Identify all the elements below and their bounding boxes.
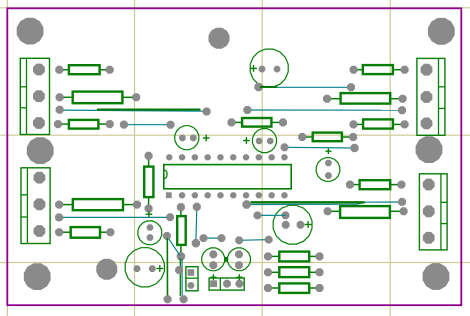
wire teal net5 — [285, 146, 355, 149]
diode D2 — [209, 274, 244, 290]
wire teal net10 vertical — [181, 259, 183, 297]
mounting hole H2 — [209, 28, 230, 49]
node net1 pad right — [203, 108, 211, 116]
node net15 pad right — [398, 198, 406, 206]
trace green net3 — [260, 86, 277, 88]
resistor R18 — [264, 283, 324, 293]
node pad left of D1 — [175, 266, 183, 274]
grid line horizontal y=135 — [0, 134, 470, 136]
node net13 pad — [254, 212, 262, 220]
node net4 pad left — [243, 106, 251, 114]
resistor R10 — [144, 152, 153, 213]
capacitor C1 — [250, 49, 288, 87]
mounting hole H6 — [24, 263, 51, 290]
capacitor C7 — [273, 205, 312, 244]
IC U1 bottom pad row (pin 1 square) — [166, 192, 288, 198]
resistor R5 — [298, 133, 357, 142]
resistor R13 — [323, 93, 407, 104]
node net10 pad bottom — [180, 295, 188, 303]
resistor R2 — [56, 92, 141, 104]
resistor R3 — [54, 120, 114, 129]
node net11 pad left — [200, 234, 208, 242]
terminal block J3 — [21, 168, 50, 244]
trace green net1 — [97, 108, 201, 110]
resistor R12 — [350, 65, 409, 74]
node net5 pad left — [281, 143, 289, 151]
node net12 pad right — [265, 236, 273, 244]
wire teal net12 — [239, 239, 269, 242]
node net1 pad left — [56, 106, 64, 114]
resistor R15 — [324, 206, 408, 218]
IC U1 top pad row — [166, 154, 287, 160]
wire teal net1 — [60, 110, 205, 111]
wire teal net2 — [124, 124, 171, 126]
wire teal net11 — [204, 237, 222, 239]
terminal block J2 — [417, 58, 445, 135]
node net6 pad right — [166, 213, 174, 221]
resistor R11 — [177, 203, 186, 260]
grid line vertical x=7 — [6, 0, 8, 316]
resistor R9 — [55, 227, 114, 238]
node net3 pad — [347, 83, 355, 91]
wire teal net6 — [60, 216, 171, 218]
node net4 pad right — [398, 106, 406, 114]
mounting hole H1 — [17, 18, 44, 45]
resistor R17 — [264, 267, 324, 277]
diode D1 — [186, 267, 198, 291]
capacitor C3 — [243, 129, 277, 153]
capacitor C4 — [316, 148, 340, 181]
resistor R16 — [264, 252, 324, 262]
resistor R4 — [228, 118, 288, 127]
capacitor C5 — [138, 211, 162, 245]
node net12 pad left — [235, 236, 243, 244]
node net8 pad — [163, 232, 171, 240]
terminal block J4 — [419, 174, 447, 250]
node net15 pad left — [242, 200, 250, 208]
resistor R6 — [350, 119, 409, 128]
node net2 pad left — [120, 121, 128, 129]
mounting hole H7 — [96, 259, 117, 280]
mounting hole H5 — [416, 136, 443, 163]
transistor Q2 — [225, 248, 251, 271]
mounting hole H3 — [428, 18, 455, 45]
IC U1 body — [164, 165, 292, 189]
mounting hole H8 — [423, 263, 450, 290]
wire teal net13 — [257, 214, 285, 216]
capacitor C2 — [175, 126, 210, 150]
node net7 pad top — [193, 203, 201, 211]
trace green net9 vertical — [166, 238, 168, 296]
wire teal net3 — [261, 86, 351, 88]
pad below C1 — [254, 83, 262, 91]
node net11 pad right — [218, 234, 226, 242]
node net7 pad bottom — [192, 239, 200, 247]
trace green net15 — [251, 201, 365, 203]
wire teal net7 vertical — [195, 208, 198, 243]
grid line vertical x=134 — [134, 0, 136, 316]
resistor R1 — [55, 65, 113, 74]
trace green net10 vertical — [179, 259, 181, 297]
transistor Q1 — [202, 248, 225, 271]
node net6 pad left — [55, 213, 63, 221]
node net5 pad right — [350, 144, 358, 152]
grid line horizontal y=8 — [0, 7, 470, 9]
grid line vertical x=390 — [389, 0, 391, 316]
mounting hole H4 — [27, 137, 54, 164]
node net2 pad right — [167, 121, 175, 129]
wire teal net4 — [248, 109, 403, 111]
resistor R8 — [55, 199, 141, 210]
grid line vertical x=262 — [261, 0, 263, 316]
grid line horizontal y=262 — [0, 262, 470, 264]
capacitor C6 — [125, 248, 164, 287]
resistor R14 — [346, 180, 405, 189]
wire teal net14 — [247, 202, 402, 205]
terminal block J1 — [20, 58, 49, 134]
wire teal net8 diagonal — [167, 236, 180, 255]
node net9 pad bottom — [164, 295, 172, 303]
